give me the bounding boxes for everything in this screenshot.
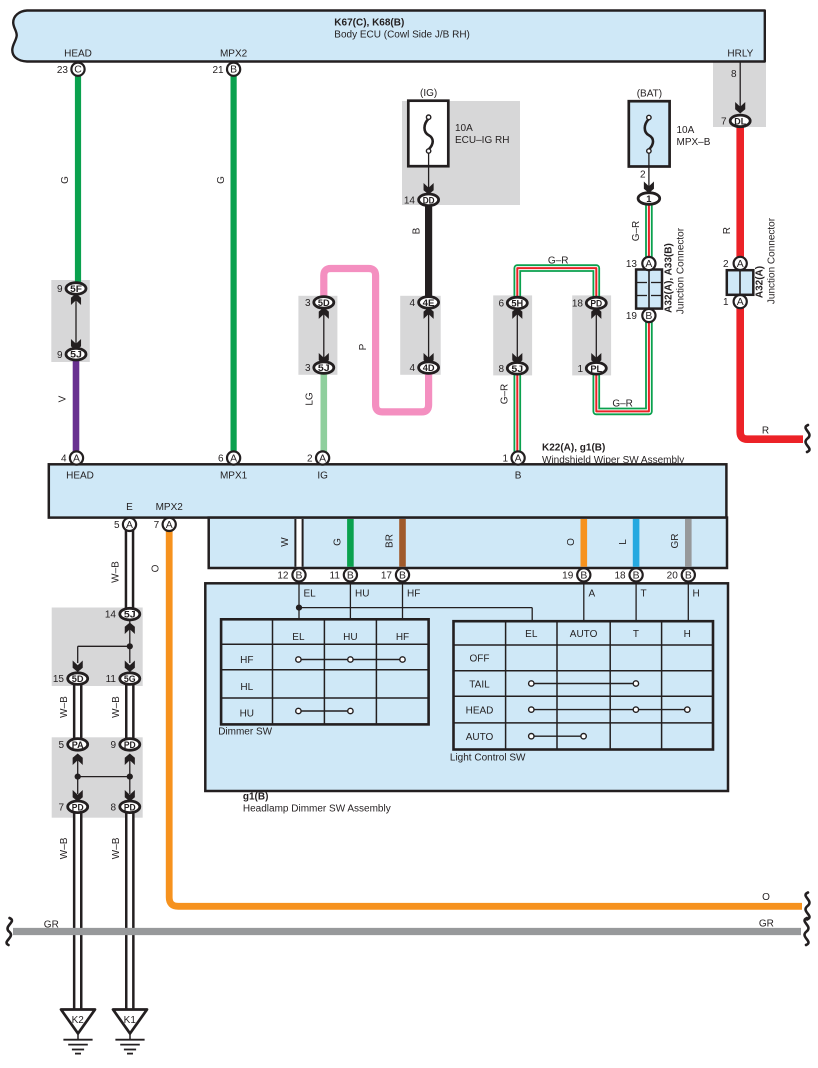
svg-text:Dimmer SW: Dimmer SW — [218, 727, 272, 738]
svg-text:BR: BR — [385, 534, 396, 548]
svg-text:5D: 5D — [318, 297, 330, 308]
svg-text:Junction Connector: Junction Connector — [676, 227, 687, 314]
pin 21(B) MPX2 — [227, 63, 240, 76]
wiper pin 6(A) — [227, 451, 240, 464]
svg-text:H: H — [693, 589, 700, 600]
svg-text:1: 1 — [503, 454, 509, 465]
svg-text:AUTO: AUTO — [466, 732, 494, 743]
wiper pin 2(A) — [316, 451, 329, 464]
wiper pin 1(A) — [511, 451, 524, 464]
intermediate connector box — [209, 518, 727, 568]
ground K1 — [113, 1010, 147, 1034]
wire LG from connector 5J to wiper SW pin 2(A) — [320, 371, 327, 453]
svg-text:A: A — [230, 454, 237, 465]
wire P from connector 5D to connector 4D — [324, 269, 429, 412]
svg-text:14: 14 — [404, 195, 416, 206]
svg-text:HEAD: HEAD — [64, 49, 92, 60]
svg-text:7: 7 — [721, 117, 727, 128]
Windshield Wiper SW Assembly box K22(A),g1(B) — [49, 464, 727, 517]
svg-text:2: 2 — [640, 170, 646, 181]
ground K2 — [61, 1010, 95, 1034]
light control AUTO row contacts — [531, 735, 583, 737]
svg-text:HEAD: HEAD — [66, 471, 94, 482]
node A lead — [583, 582, 585, 621]
break symbol R right — [806, 425, 810, 452]
junction pin 19(B) — [642, 309, 655, 322]
wire W-B from connector 5G to connector PD — [125, 682, 135, 740]
svg-text:4: 4 — [409, 298, 415, 309]
svg-text:GR: GR — [759, 919, 774, 930]
svg-text:5J: 5J — [70, 349, 82, 360]
svg-text:B: B — [347, 570, 354, 581]
junction connector A32(A),A33(B) — [636, 270, 662, 309]
svg-text:10A: 10A — [455, 123, 473, 134]
connector pair PD/PL — [595, 310, 597, 361]
svg-text:Light Control SW: Light Control SW — [450, 753, 526, 764]
wiper pin 7(A) MPX2 — [163, 518, 176, 531]
svg-text:HF: HF — [407, 589, 420, 600]
svg-text:Junction Connector: Junction Connector — [767, 217, 778, 304]
svg-text:B: B — [633, 570, 640, 581]
connector pair 4E/4D — [428, 310, 430, 361]
svg-text:K2: K2 — [72, 1015, 85, 1026]
svg-text:W–B: W–B — [111, 561, 122, 583]
connector PA pin 5 — [68, 739, 88, 751]
svg-text:A: A — [515, 454, 522, 465]
svg-text:8: 8 — [110, 802, 116, 813]
wire B from fuse oval DD to connector 4E — [425, 203, 432, 298]
svg-text:4E: 4E — [423, 297, 435, 308]
pin 20(B) — [682, 568, 695, 581]
svg-text:AUTO: AUTO — [570, 629, 598, 640]
svg-text:1: 1 — [723, 297, 729, 308]
svg-text:TAIL: TAIL — [469, 680, 490, 691]
svg-text:DD: DD — [423, 194, 435, 205]
fuse 10A ECU-IG RH — [408, 101, 448, 167]
svg-text:W–B: W–B — [111, 696, 122, 718]
svg-text:15: 15 — [53, 674, 65, 685]
svg-text:HU: HU — [240, 709, 254, 720]
svg-text:B: B — [296, 570, 303, 581]
svg-text:HRLY: HRLY — [727, 49, 753, 60]
svg-text:MPX1: MPX1 — [220, 471, 248, 482]
svg-text:K1: K1 — [124, 1015, 137, 1026]
connector PD pin 8 — [120, 801, 140, 813]
Headlamp Dimmer SW Assembly box g1(B) — [205, 583, 728, 791]
break symbol GR right — [805, 918, 809, 945]
svg-text:T: T — [633, 629, 639, 640]
svg-text:O: O — [762, 892, 770, 903]
svg-text:PD: PD — [72, 801, 84, 812]
connector pair 5H/5J — [516, 310, 518, 361]
wire BR inside box — [399, 519, 406, 567]
svg-text:4D: 4D — [423, 362, 435, 373]
svg-text:12: 12 — [277, 571, 289, 582]
svg-text:G–R: G–R — [548, 256, 569, 267]
svg-text:B: B — [411, 227, 422, 234]
svg-text:9: 9 — [57, 350, 63, 361]
svg-text:5J: 5J — [124, 609, 136, 620]
svg-text:9: 9 — [110, 740, 116, 751]
connector group shading PA/PD — [52, 737, 143, 817]
svg-text:G–R: G–R — [612, 399, 633, 410]
svg-text:B: B — [645, 311, 652, 322]
break symbol O right — [806, 893, 810, 920]
svg-text:Body ECU (Cowl Side J/B RH): Body ECU (Cowl Side J/B RH) — [334, 30, 470, 41]
svg-text:R: R — [762, 426, 769, 437]
svg-text:5D: 5D — [72, 673, 84, 684]
svg-text:B: B — [515, 471, 522, 482]
svg-text:PD: PD — [590, 298, 602, 309]
svg-text:PD: PD — [124, 801, 136, 812]
svg-text:HU: HU — [355, 589, 369, 600]
wire GR inside box — [685, 519, 692, 567]
svg-text:OFF: OFF — [470, 654, 490, 665]
svg-text:6: 6 — [498, 299, 504, 310]
wire G from pin 23(C) to connector 5F — [75, 74, 81, 291]
wire W inside box — [294, 519, 303, 567]
svg-text:V: V — [58, 395, 69, 402]
svg-text:19: 19 — [626, 311, 638, 322]
svg-text:HF: HF — [240, 655, 253, 666]
svg-text:W: W — [280, 537, 291, 547]
fuse oval 1 — [638, 193, 660, 205]
svg-text:EL: EL — [525, 629, 538, 640]
wire W-B from connector PD(7) to ground K2 — [73, 811, 83, 1009]
connector pair shading 4E/4D — [400, 296, 441, 375]
svg-text:A32(A): A32(A) — [755, 266, 766, 298]
svg-text:3: 3 — [305, 298, 311, 309]
svg-text:G: G — [216, 176, 227, 184]
pin 18(B) — [630, 568, 643, 581]
wire G-R from connector PD up, left, down to connector 5H — [517, 268, 596, 299]
svg-text:g1(B): g1(B) — [243, 792, 269, 803]
svg-text:EL: EL — [304, 589, 317, 600]
connector pair 5F/5J — [75, 296, 77, 348]
svg-text:MPX2: MPX2 — [220, 49, 248, 60]
svg-text:7: 7 — [154, 520, 160, 531]
light control HEAD row contacts — [531, 709, 687, 711]
junction pin 1(A) — [734, 295, 747, 308]
connector 5J pin 14 group — [129, 620, 131, 646]
svg-text:P: P — [358, 343, 369, 350]
wire R from relay oval DL to right edge break — [740, 124, 803, 439]
svg-text:A: A — [589, 589, 596, 600]
svg-text:5: 5 — [58, 740, 64, 751]
svg-text:PD: PD — [124, 739, 136, 750]
svg-text:1: 1 — [646, 193, 651, 204]
svg-text:5J: 5J — [511, 363, 523, 374]
connector pair shading 5H/5J — [493, 295, 532, 375]
svg-text:B: B — [580, 570, 587, 581]
svg-text:K67(C), K68(B): K67(C), K68(B) — [334, 18, 404, 29]
Dimmer SW table — [221, 619, 429, 724]
node H lead — [687, 582, 689, 621]
node EL lead — [298, 582, 300, 619]
relay lead 8 to DL — [739, 62, 741, 110]
svg-text:O: O — [151, 564, 162, 572]
pin 11(B) — [344, 568, 357, 581]
svg-text:11: 11 — [106, 674, 117, 685]
relay block shading (HRLY) — [713, 61, 766, 127]
svg-text:B: B — [685, 570, 692, 581]
svg-text:A: A — [166, 520, 173, 531]
svg-text:5J: 5J — [318, 362, 330, 373]
fuse oval DD pin 14 — [419, 194, 439, 206]
svg-text:HL: HL — [240, 682, 253, 693]
svg-text:8: 8 — [731, 69, 737, 80]
wire O inside box — [580, 519, 587, 567]
svg-text:21: 21 — [212, 65, 224, 76]
svg-text:EL: EL — [292, 632, 305, 643]
EL branch to light control SW — [299, 607, 532, 609]
fuse block shading (IG fuse) — [402, 101, 520, 205]
connector pair shading PD/PL — [572, 295, 611, 375]
svg-text:A32(A), A33(B): A32(A), A33(B) — [664, 243, 675, 313]
svg-text:5F: 5F — [70, 283, 82, 294]
svg-text:Headlamp Dimmer SW Assembly: Headlamp Dimmer SW Assembly — [243, 804, 391, 815]
pin 17(B) — [396, 568, 409, 581]
node HF lead — [402, 582, 404, 619]
junction pin 2(A) — [734, 257, 747, 270]
svg-text:A: A — [126, 520, 133, 531]
node T lead — [635, 582, 637, 621]
connector pair 5D/5J (IG) — [323, 310, 325, 361]
svg-text:Windshield Wiper SW Assembly: Windshield Wiper SW Assembly — [542, 455, 684, 466]
svg-text:W–B: W–B — [59, 837, 70, 859]
svg-text:(BAT): (BAT) — [637, 89, 662, 100]
wire G-R from connector 5J to wiper SW pin 1(A) — [513, 371, 521, 453]
wire G inside box — [347, 519, 354, 567]
svg-text:11: 11 — [330, 571, 341, 582]
junction dot EL — [296, 605, 302, 611]
svg-text:4: 4 — [61, 454, 67, 465]
connector 5D pin 15 — [68, 673, 88, 685]
connector pair shading 5D/5J — [298, 296, 337, 375]
svg-text:PL: PL — [590, 363, 602, 374]
node HU lead — [349, 582, 351, 619]
svg-text:1: 1 — [577, 364, 583, 375]
svg-text:A: A — [319, 454, 326, 465]
svg-text:GR: GR — [670, 534, 681, 549]
pin 19(B) — [577, 568, 590, 581]
svg-text:G: G — [333, 538, 344, 546]
svg-text:A: A — [645, 259, 652, 270]
Light Control SW table — [454, 621, 714, 749]
svg-text:MPX–B: MPX–B — [677, 137, 711, 148]
junction connector A32(A) right — [727, 270, 754, 295]
svg-text:R: R — [722, 227, 733, 234]
svg-text:DL: DL — [734, 115, 746, 126]
svg-text:8: 8 — [498, 364, 504, 375]
wire GR bus bottom — [13, 928, 801, 935]
svg-text:B: B — [230, 65, 237, 76]
svg-text:18: 18 — [614, 571, 626, 582]
svg-text:GR: GR — [44, 920, 59, 931]
connector PD pin 7 — [68, 801, 88, 813]
svg-text:20: 20 — [667, 571, 679, 582]
wire G-R from junction 19(B) down, left, up to connector PL — [596, 320, 649, 411]
svg-text:13: 13 — [626, 259, 638, 270]
dimmer HU row contacts — [298, 710, 350, 712]
pin 23(C) HEAD — [71, 63, 84, 76]
svg-text:9: 9 — [57, 284, 63, 295]
wiper pin 5(A) E — [123, 518, 136, 531]
wire G from pin 21(B) to wiper SW pin 6(A) — [231, 74, 237, 453]
svg-text:B: B — [399, 570, 406, 581]
svg-text:C: C — [74, 65, 82, 76]
wire W-B from connector PD(8) to ground K1 — [125, 811, 135, 1009]
svg-text:G: G — [60, 176, 71, 184]
fuse 10A MPX-B — [629, 101, 670, 166]
connector PD pin 9 — [120, 739, 140, 751]
pin 12(B) — [292, 568, 305, 581]
svg-text:5G: 5G — [124, 673, 136, 684]
svg-text:(IG): (IG) — [420, 88, 437, 99]
svg-text:5: 5 — [114, 520, 120, 531]
svg-text:G–R: G–R — [500, 384, 511, 405]
svg-text:O: O — [566, 538, 577, 546]
svg-text:K22(A), g1(B): K22(A), g1(B) — [542, 443, 605, 454]
svg-text:HEAD: HEAD — [466, 706, 494, 717]
wiper pin 4(A) — [70, 451, 83, 464]
light control TAIL row contacts — [531, 683, 636, 685]
svg-text:10A: 10A — [677, 125, 695, 136]
break symbol GR left — [7, 918, 12, 945]
svg-text:HU: HU — [343, 632, 357, 643]
wire G-R from fuse oval 1 to junction 13(A) — [645, 200, 653, 259]
svg-text:W–B: W–B — [111, 837, 122, 859]
dimmer HF row contacts — [298, 659, 402, 661]
wire V from connector 5J to wiper SW pin 4(A) — [73, 358, 80, 453]
svg-text:W–B: W–B — [59, 696, 70, 718]
svg-text:H: H — [684, 629, 691, 640]
svg-text:G–R: G–R — [631, 221, 642, 242]
connector 5G pin 11 — [120, 673, 140, 685]
svg-text:A: A — [737, 259, 744, 270]
wire O from wiper SW pin 7(A) to right edge break — [169, 528, 802, 906]
wire W-B from connector 5D to connector PA — [73, 682, 83, 740]
svg-text:19: 19 — [562, 571, 574, 582]
svg-text:18: 18 — [572, 299, 584, 310]
svg-text:4: 4 — [409, 363, 415, 374]
svg-text:HF: HF — [396, 632, 409, 643]
svg-text:5H: 5H — [511, 298, 523, 309]
svg-text:IG: IG — [317, 471, 328, 482]
svg-text:T: T — [641, 589, 647, 600]
svg-text:2: 2 — [307, 454, 313, 465]
svg-text:17: 17 — [381, 571, 393, 582]
junction pin 13(A) — [642, 257, 655, 270]
wire L inside box — [633, 519, 640, 567]
connector PA/PD to PD/PD group — [77, 759, 79, 777]
svg-text:14: 14 — [105, 610, 117, 621]
svg-text:A: A — [73, 454, 80, 465]
connector group shading 5J/5D/5G — [52, 608, 143, 687]
svg-text:LG: LG — [305, 392, 316, 406]
svg-text:MPX2: MPX2 — [156, 502, 184, 513]
svg-text:23: 23 — [57, 65, 69, 76]
svg-text:6: 6 — [218, 454, 224, 465]
connector pair shading 5F/5J — [51, 280, 90, 362]
svg-text:L: L — [618, 539, 629, 545]
svg-text:E: E — [126, 502, 133, 513]
svg-text:7: 7 — [58, 802, 64, 813]
svg-text:3: 3 — [305, 363, 311, 374]
relay oval DL pin 7 — [730, 115, 750, 127]
svg-text:ECU–IG RH: ECU–IG RH — [455, 135, 509, 146]
svg-text:A: A — [737, 297, 744, 308]
svg-text:2: 2 — [723, 259, 729, 270]
wire W-B from wiper SW pin 5(A) to connector 5J — [125, 529, 135, 609]
svg-text:PA: PA — [72, 739, 84, 750]
Body ECU block K67(C),K68(B) — [12, 11, 765, 62]
